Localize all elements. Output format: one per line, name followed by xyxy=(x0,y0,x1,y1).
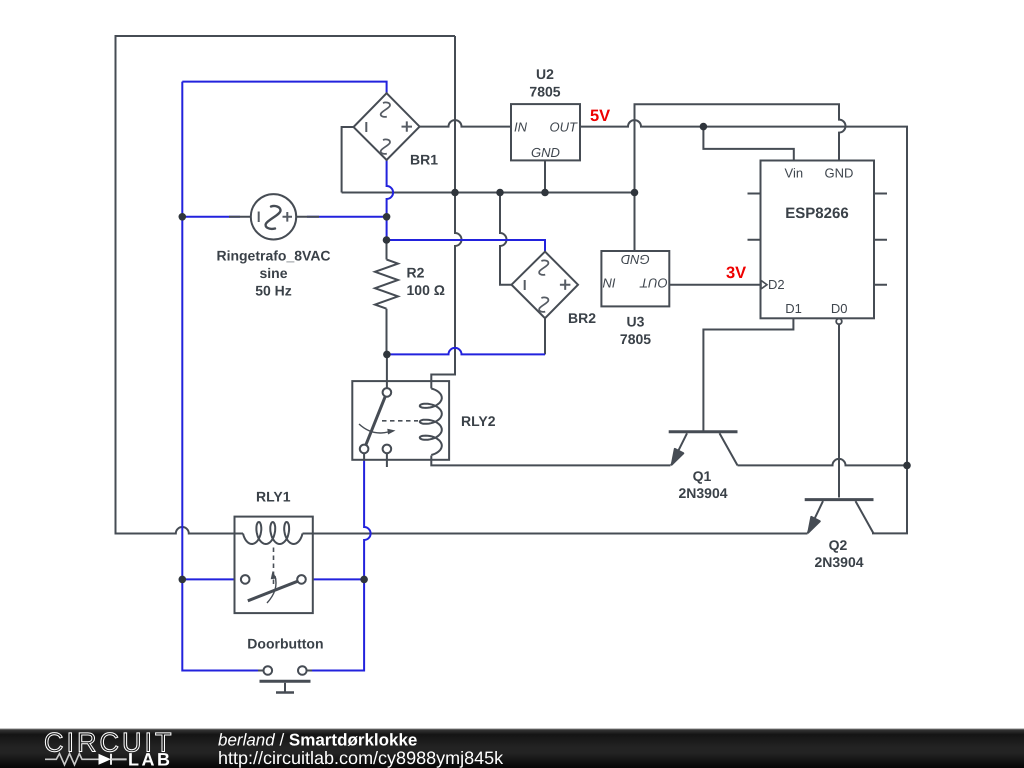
junction R2 bottom / RLY2 common xyxy=(383,351,391,359)
junction Q1 collector / 5V rail xyxy=(903,462,911,470)
svg-text:2N3904: 2N3904 xyxy=(814,554,863,570)
bridge rectifier BR1 xyxy=(354,93,439,167)
wire blue left vertical xyxy=(182,82,258,671)
wire BR2 bottom stub xyxy=(544,318,546,354)
wire ESP D0 to Q2 base xyxy=(838,324,840,497)
FOOTER xyxy=(0,728,1024,768)
svg-text:7805: 7805 xyxy=(529,84,560,100)
bridge rectifier BR2 xyxy=(512,252,597,326)
svg-text:BR1: BR1 xyxy=(410,152,438,168)
svg-text:5V: 5V xyxy=(590,107,610,125)
svg-text:D1: D1 xyxy=(785,301,802,316)
svg-text:OUT: OUT xyxy=(550,119,579,134)
relay RLY2 xyxy=(352,381,495,467)
svg-text:berland / Smartdørklokke: berland / Smartdørklokke xyxy=(218,731,417,750)
wire blue BR1 bottom drop xyxy=(387,160,394,240)
relay RLY1 xyxy=(235,489,313,614)
svg-text:R2: R2 xyxy=(407,265,425,281)
svg-text:GND: GND xyxy=(531,145,560,160)
junction R2 top / BR2 top net xyxy=(383,236,391,244)
wire RLY2 coil bottom to Q1 emitter xyxy=(431,460,670,466)
wire bottom bus RLY1 coil to Q2 emitter xyxy=(303,533,808,535)
junction gnd bus / outer loop xyxy=(451,189,459,197)
svg-text:D2: D2 xyxy=(768,277,785,292)
wire BR2 left drop from gnd bus xyxy=(500,193,512,285)
pushbutton Doorbutton xyxy=(247,636,323,693)
svg-text:IN: IN xyxy=(602,276,616,291)
wire blue RLY1 left link xyxy=(182,578,241,580)
junction gnd bus / U3 GND riser xyxy=(631,189,639,197)
svg-text:Vin: Vin xyxy=(785,166,804,181)
wire BR1 plus to U2 IN xyxy=(420,120,511,127)
svg-text:U3: U3 xyxy=(627,313,645,329)
wire blue top to BR1 xyxy=(182,82,386,94)
svg-text:2N3904: 2N3904 xyxy=(678,485,727,501)
wire blue RLY1 right link xyxy=(306,578,364,580)
svg-text:RLY1: RLY1 xyxy=(256,489,291,505)
wire ESP D1 to Q1 base xyxy=(703,318,793,430)
svg-text:ESP8266: ESP8266 xyxy=(785,205,848,222)
junction RLY1 right terminal net xyxy=(360,576,368,584)
wire BR1 minus to gnd bus xyxy=(342,127,354,193)
transistor Q1 2N3904 xyxy=(669,432,738,501)
svg-text:100 Ω: 100 Ω xyxy=(407,282,445,298)
svg-text:LAB: LAB xyxy=(128,750,173,768)
svg-text:RLY2: RLY2 xyxy=(461,413,496,429)
wire U2 gnd drop xyxy=(544,160,546,192)
wire blue AC left xyxy=(182,216,240,218)
wire right drop x455 to RLY2 coil xyxy=(431,36,461,388)
transistor Q2 2N3904 xyxy=(805,500,874,570)
junction AC right / BR1 bottom xyxy=(383,213,391,221)
svg-text:Ringetrafo_8VAC: Ringetrafo_8VAC xyxy=(216,247,330,263)
IC ESP8266 xyxy=(748,161,888,325)
svg-text:3V: 3V xyxy=(726,264,746,282)
svg-text:50 Hz: 50 Hz xyxy=(255,282,292,298)
wire outer top/left loop xyxy=(116,36,456,534)
wire RLY2 common pin xyxy=(386,354,388,388)
junction gnd bus / BR2 left xyxy=(496,189,504,197)
wire gnd bus xyxy=(342,192,635,194)
svg-text:GND: GND xyxy=(825,166,854,181)
AC source Ringetrafo_8VAC xyxy=(216,194,330,298)
svg-text:OUT: OUT xyxy=(639,276,668,291)
svg-text:GND: GND xyxy=(621,252,650,267)
wire R2 leads xyxy=(386,240,388,354)
svg-text:IN: IN xyxy=(514,119,528,134)
junction RLY1 left terminal net xyxy=(179,576,187,584)
logo resistor-diode glyph xyxy=(45,754,99,765)
junction 5V rail / Vin branch xyxy=(700,123,708,131)
svg-text:U2: U2 xyxy=(536,66,554,82)
wire blue BR2 bottom run xyxy=(387,348,545,354)
wire Q1 collector to 5V rail xyxy=(738,459,908,466)
svg-text:http://circuitlab.com/cy8988ym: http://circuitlab.com/cy8988ymj845k xyxy=(218,748,504,768)
svg-text:Doorbutton: Doorbutton xyxy=(247,636,323,652)
svg-text:7805: 7805 xyxy=(620,331,651,347)
junction gnd bus / U2 GND xyxy=(541,189,549,197)
junction AC left / blue vertical xyxy=(179,213,187,221)
wire U3 OUT to ESP D2 xyxy=(669,284,760,286)
svg-text:sine: sine xyxy=(259,265,287,281)
regulator U2 7805 xyxy=(511,66,580,160)
wire blue R2 top to BR2 top xyxy=(387,240,546,252)
resistor R2 xyxy=(375,260,445,309)
wire gnd riser U3 to ESP GND xyxy=(635,104,846,251)
svg-text:D0: D0 xyxy=(831,301,848,316)
wire blue AC right xyxy=(307,216,387,218)
svg-text:BR2: BR2 xyxy=(568,310,596,326)
svg-text:Q2: Q2 xyxy=(829,537,848,553)
wire Vin branch xyxy=(703,127,793,161)
svg-text:Q1: Q1 xyxy=(693,468,712,484)
regulator U3 7805 (rotated 180) xyxy=(601,251,669,347)
wire 5V rail U2 OUT to right side xyxy=(580,120,907,533)
wire blue RLY2 NC down to doorbutton xyxy=(312,453,371,670)
